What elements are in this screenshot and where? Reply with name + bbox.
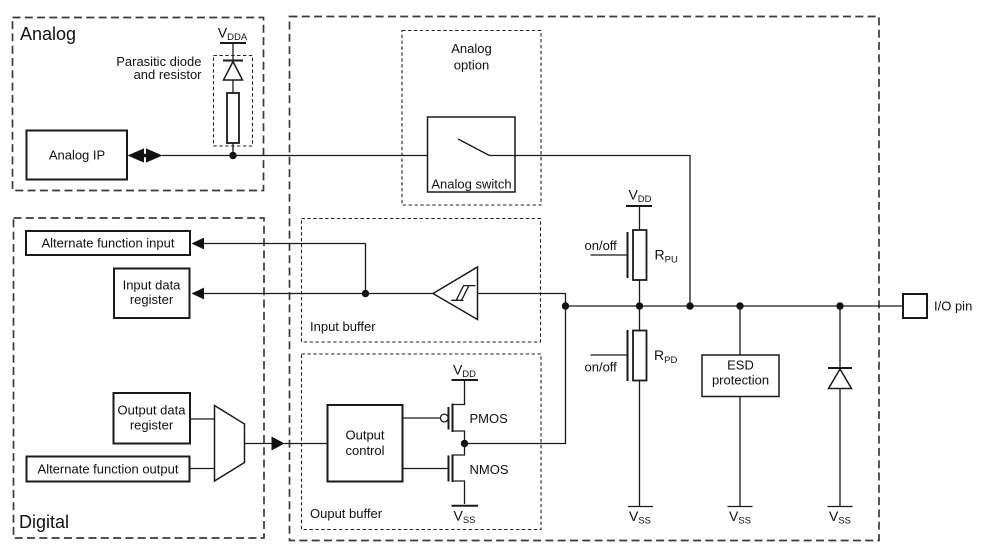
svg-text:Alternate function output: Alternate function output [38,462,179,477]
node PMOS/NMOS drain junction [461,440,468,447]
Analog option dashed box [402,31,541,206]
Output data register block [114,393,191,444]
svg-text:ESD: ESD [727,358,754,373]
analog switch box [428,117,516,192]
parasitic resistor [227,93,239,143]
VDD power symbol above RPU [626,187,652,207]
PMOS gate bubble [440,414,448,422]
analog wire left segment [162,155,452,157]
transistor PMOS [449,404,509,444]
Input data register block [114,269,190,319]
Output buffer dashed box [302,354,542,530]
switch blade [458,139,490,156]
bidirectional arrow to Analog IP [128,148,163,162]
svg-text:Alternate function input: Alternate function input [42,236,175,251]
svg-text:and resistor: and resistor [134,67,203,82]
wire bus to ESD protection [739,306,741,355]
svg-text:Input buffer: Input buffer [310,319,376,334]
Alternate function output block [27,457,190,482]
wire node to schmitt trigger [366,293,434,295]
svg-text:Ouput buffer: Ouput buffer [310,506,383,521]
VSS ground under ESD [728,507,753,527]
resistor RPD [633,331,677,381]
svg-text:on/off: on/off [585,238,618,253]
wire diode to ground [839,389,841,507]
wire branch down to input line [365,244,367,294]
svg-text:protection: protection [712,373,769,388]
output mux [215,406,245,482]
parasitic diode D1 [223,61,243,81]
RPD on/off gate [585,330,628,381]
main I/O bus wire [566,305,904,307]
wire drain junction to bus [465,306,566,444]
label parasitic diode and resistor [116,54,202,82]
parasitic diode and resistor dashed box [214,56,253,147]
arrow into input data register [192,288,366,300]
Alternate function input block [26,231,190,255]
wire schmitt to bus corner [478,294,566,307]
wire output data register to mux [190,418,215,420]
transistor NMOS [449,444,509,505]
I/O pin pad [903,294,972,318]
svg-text:register: register [130,418,174,433]
svg-text:Analog: Analog [20,24,76,44]
node bus ESD junction [736,302,743,309]
svg-text:option: option [454,58,489,73]
wire RPD to ground [639,381,641,507]
svg-text:Output data: Output data [118,403,187,418]
PMOS gate wire [403,417,441,419]
wire bus to protection diode [839,306,841,367]
wire RPU to bus [639,280,641,306]
svg-text:control: control [345,443,384,458]
protection diode [828,368,852,389]
svg-text:NMOS: NMOS [470,462,509,477]
node bus analog branch junction [686,302,693,309]
wire VDD to RPU [639,206,641,230]
Output control block [328,405,403,482]
wire alternate function output to mux [190,468,215,470]
wire resistor to analog node [232,143,234,156]
svg-text:Analog IP: Analog IP [49,148,105,163]
VSS ground under diode [828,507,853,527]
outer I/O structure dashed box [290,17,880,541]
NMOS gate wire [403,468,449,470]
VDDA power symbol [218,25,248,44]
wire diode to resistor [232,80,234,93]
wire ESD to ground [739,397,741,507]
node analog line junction [229,152,236,159]
wire VDDA to parasitic diode [232,43,234,60]
svg-text:Digital: Digital [19,512,69,532]
VSS ground under RPD [628,507,653,527]
RPU on/off gate [585,232,628,278]
VDD power symbol above PMOS [452,362,479,381]
Analog IP block [27,131,128,180]
VSS ground under NMOS [452,506,479,526]
Input buffer dashed box [302,219,541,343]
wire VDD to PMOS source [453,380,465,405]
svg-text:PMOS: PMOS [470,411,509,426]
wire bus to RPD [639,306,641,331]
node bus RPU junction [636,302,643,309]
Analog section dashed box [13,18,264,191]
svg-text:register: register [130,292,174,307]
svg-text:Analog: Analog [451,41,491,56]
svg-text:Analog switch: Analog switch [431,177,511,192]
svg-text:on/off: on/off [585,360,618,375]
svg-text:Input data: Input data [123,278,182,293]
node main bus at output buffer branch [562,302,569,309]
resistor RPU [633,230,678,280]
arrow into alternate function input [192,238,366,250]
ESD protection block [702,355,779,397]
svg-text:Output: Output [345,428,384,443]
analog wire right segment [490,156,691,307]
node bus diode junction [836,302,843,309]
schmitt trigger TTL input buffer [433,267,478,320]
node input branch [362,290,369,297]
mux output wire with arrow [245,437,328,451]
Digital section dashed box [14,218,265,538]
svg-text:I/O pin: I/O pin [934,299,972,314]
